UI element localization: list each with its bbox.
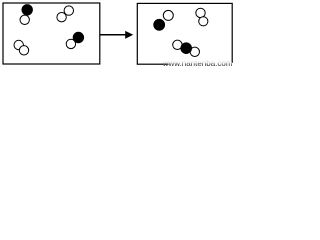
reaction arrow (100, 31, 133, 39)
molecule D (left box, bottom-right: black atom) (73, 32, 84, 43)
molecule C (left box, bottom-left: upper white atom) (14, 40, 23, 49)
molecule G (right box, bottom-middle: left white atom) (173, 40, 182, 49)
reactant box (left container) (3, 3, 100, 64)
molecule G (right box, bottom-middle: right white atom) (190, 47, 199, 56)
molecule F (right box, upper-right: upper white atom) (196, 8, 205, 17)
molecule E (right box, upper-left: black atom) (154, 19, 165, 30)
molecule B (left box, top-right: upper white atom) (64, 6, 73, 15)
molecule B (left box, top-right: lower white atom) (57, 13, 66, 22)
molecule G (right box, bottom-middle: center black atom) (181, 43, 192, 54)
molecule C (left box, bottom-left: lower white atom) (19, 46, 28, 55)
product box (right container) (137, 3, 232, 64)
molecule E (right box, upper-left: white atom) (163, 10, 173, 20)
molecule F (right box, upper-right: lower white atom) (199, 17, 208, 26)
watermark background patch (covers box bottom border) (169, 63, 236, 67)
molecule A (left box, top-left: black atom) (22, 5, 33, 16)
molecule D (left box, bottom-right: white atom) (66, 39, 75, 48)
molecule A (left box, top-left: white atom) (20, 15, 29, 24)
background (0, 0, 235, 67)
